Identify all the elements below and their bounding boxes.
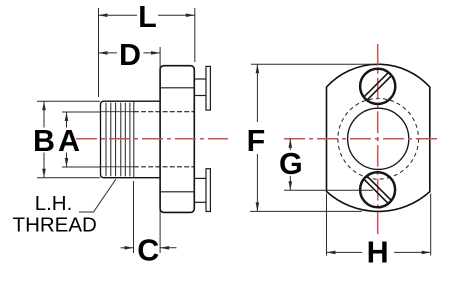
extension line (flange face / D tick / C right) <box>159 47 161 253</box>
dimension C <box>121 181 177 267</box>
svg-text:F: F <box>247 124 266 158</box>
svg-text:D: D <box>119 38 141 72</box>
svg-text:G: G <box>279 147 303 181</box>
svg-text:L.H.: L.H. <box>35 192 73 215</box>
dimension L <box>99 0 195 97</box>
flange side view body <box>160 66 194 213</box>
dimension A <box>58 112 100 167</box>
flange tangent line top <box>160 87 194 89</box>
leader L.H. THREAD <box>79 179 116 212</box>
thread bottom edge <box>104 177 160 179</box>
centerline vertical right view <box>377 44 379 234</box>
svg-text:B: B <box>33 124 55 158</box>
svg-text:THREAD: THREAD <box>13 214 97 237</box>
centerline horizontal right view <box>280 138 437 140</box>
screw top side: head <box>206 66 210 110</box>
svg-text:H: H <box>367 236 389 270</box>
hidden line thread bore top <box>134 111 195 113</box>
bore circle <box>348 108 409 169</box>
thread crest lines <box>106 103 130 177</box>
svg-text:L: L <box>138 0 157 34</box>
screw bottom front view <box>360 172 395 207</box>
thread top edge <box>104 100 160 102</box>
dimension G <box>279 139 373 191</box>
thread block outline <box>101 101 105 178</box>
thread runout line <box>133 101 135 178</box>
svg-text:C: C <box>137 233 159 267</box>
thread circle (dashed) <box>338 99 419 180</box>
dimension D <box>99 38 161 72</box>
dimension H <box>327 194 431 270</box>
flange tangent line bottom <box>160 191 194 193</box>
screw bottom side: head <box>206 169 210 212</box>
screw bottom side: shank lines <box>194 178 206 202</box>
svg-text:A: A <box>58 124 80 158</box>
screw top front view <box>360 69 395 104</box>
dimension B <box>33 101 100 178</box>
hidden line thread bore bottom <box>134 166 195 168</box>
thread minor dia lines <box>101 112 134 167</box>
centerline horizontal left view <box>76 138 228 140</box>
flange front view outline <box>327 64 430 211</box>
dimension F <box>247 64 374 211</box>
screw top side: shank lines <box>194 79 206 96</box>
